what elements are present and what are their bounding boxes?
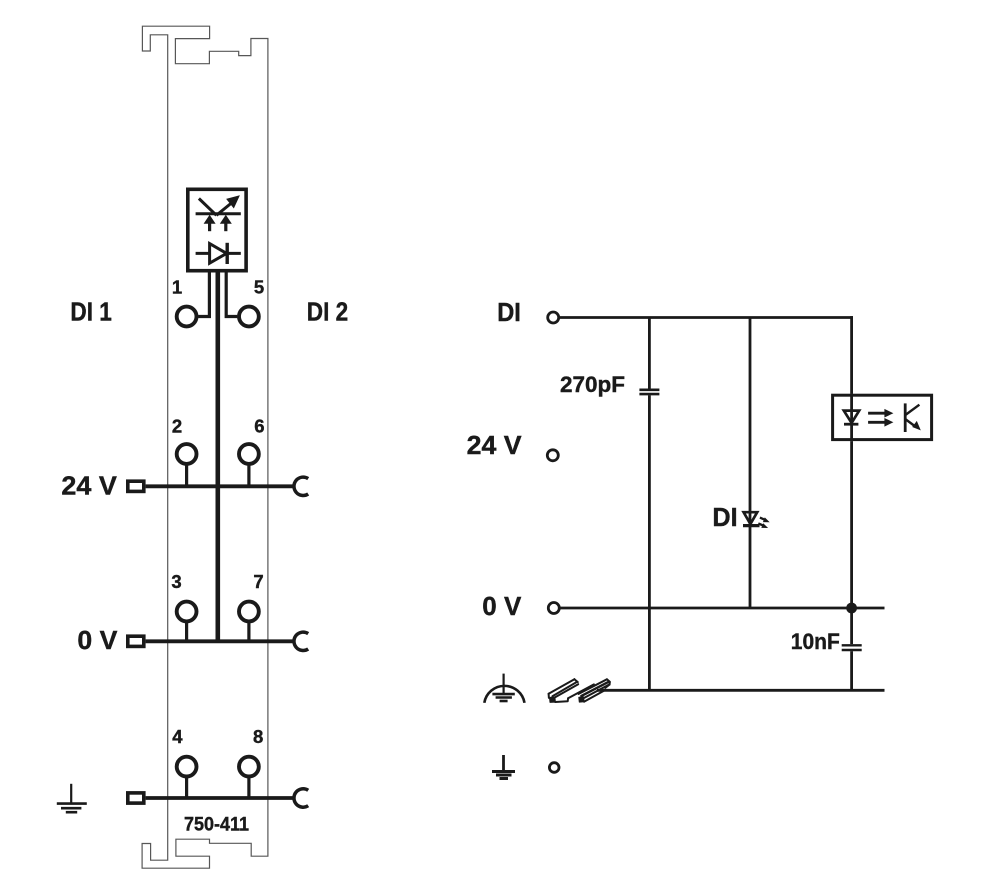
led DI (743, 512, 770, 528)
ground symbol (module) (57, 784, 87, 812)
svg-text:0 V: 0 V (482, 591, 522, 621)
terminal 4 (177, 757, 197, 777)
DIN rail symbol (549, 679, 610, 702)
wire: LED branch upper (749, 318, 752, 525)
wire: 270pF branch lower (648, 395, 651, 690)
wire: DI net horizontal (560, 316, 853, 319)
node 24V terminal circle (547, 450, 558, 461)
terminal 3 (177, 602, 197, 622)
wire: terminal 6 stub (247, 464, 250, 487)
svg-text:7: 7 (253, 571, 263, 592)
svg-text:6: 6 (254, 416, 264, 437)
junction dot 0V/10nF (846, 603, 857, 614)
capacitor 270pF (639, 390, 659, 394)
svg-text:DI: DI (497, 297, 521, 327)
node earth terminal circle (549, 763, 559, 773)
optocoupler light arrows (868, 409, 893, 427)
surge suppressor symbol (196, 196, 241, 231)
wire: optocoupler to 0V (850, 441, 853, 608)
svg-text:24 V: 24 V (467, 430, 523, 460)
wire: 10nF branch lower (850, 651, 853, 690)
wire: terminal 2 stub (185, 464, 188, 487)
wire: terminal 8 stub (247, 776, 250, 798)
earth connector square (128, 793, 144, 803)
wire: optocoupler internal vertical (850, 394, 853, 441)
svg-text:DI: DI (712, 502, 737, 532)
capacitor 10nF (842, 645, 862, 650)
diode symbol (196, 243, 241, 264)
svg-text:DI 1: DI 1 (70, 297, 111, 327)
svg-text:10nF: 10nF (791, 629, 840, 654)
svg-text:2: 2 (172, 416, 182, 437)
wire: center bus from filter box to 0V line (216, 270, 221, 641)
svg-text:270pF: 270pF (560, 372, 625, 397)
wire: rail net (597, 689, 885, 692)
0V jumper contact arc (294, 632, 308, 650)
wire: earth bus (146, 796, 295, 800)
wire: 0V net (560, 607, 884, 610)
wire: 10nF branch upper (850, 608, 853, 644)
svg-text:3: 3 (171, 571, 181, 592)
terminal 2 (177, 444, 197, 464)
filter box (188, 189, 246, 270)
terminal 6 (239, 444, 259, 464)
24V connector square (128, 481, 144, 491)
optocoupler phototransistor (905, 403, 921, 432)
svg-text:DI 2: DI 2 (307, 297, 348, 327)
24V jumper contact arc (294, 477, 308, 495)
wire: 270pF branch upper (648, 318, 651, 389)
wire: 0V bus (146, 639, 295, 643)
wire: terminal 4 stub (185, 776, 188, 798)
svg-text:750-411: 750-411 (184, 813, 249, 835)
svg-text:5: 5 (254, 277, 264, 298)
wire: terminal 3 stub (185, 621, 188, 641)
svg-text:8: 8 (253, 726, 263, 747)
optocoupler box (833, 395, 932, 439)
wire: box left lead to terminal 1 (198, 270, 209, 317)
node DI terminal circle (548, 312, 559, 323)
node 0V terminal circle (548, 603, 559, 614)
terminal 1 (177, 307, 197, 327)
wire: DI down to optocoupler (850, 316, 853, 394)
terminal 8 (239, 757, 259, 777)
wire: 24V bus (146, 484, 295, 488)
optocoupler LED (844, 411, 859, 425)
0V connector square (128, 636, 144, 646)
wire: LED branch lower (749, 526, 752, 609)
svg-text:0 V: 0 V (77, 625, 118, 655)
svg-text:4: 4 (172, 726, 183, 747)
terminal 7 (239, 602, 259, 622)
module 750-411 body outline (142, 26, 268, 868)
svg-text:1: 1 (172, 277, 182, 298)
terminal 5 (239, 307, 259, 327)
svg-text:24 V: 24 V (61, 471, 117, 501)
earth symbol (schematic bottom) (492, 755, 515, 779)
functional earth symbol (arc ground) (484, 674, 524, 703)
wire: terminal 7 stub (247, 621, 250, 641)
wire: box right lead to terminal 5 (226, 270, 237, 317)
earth jumper contact arc (294, 789, 308, 807)
